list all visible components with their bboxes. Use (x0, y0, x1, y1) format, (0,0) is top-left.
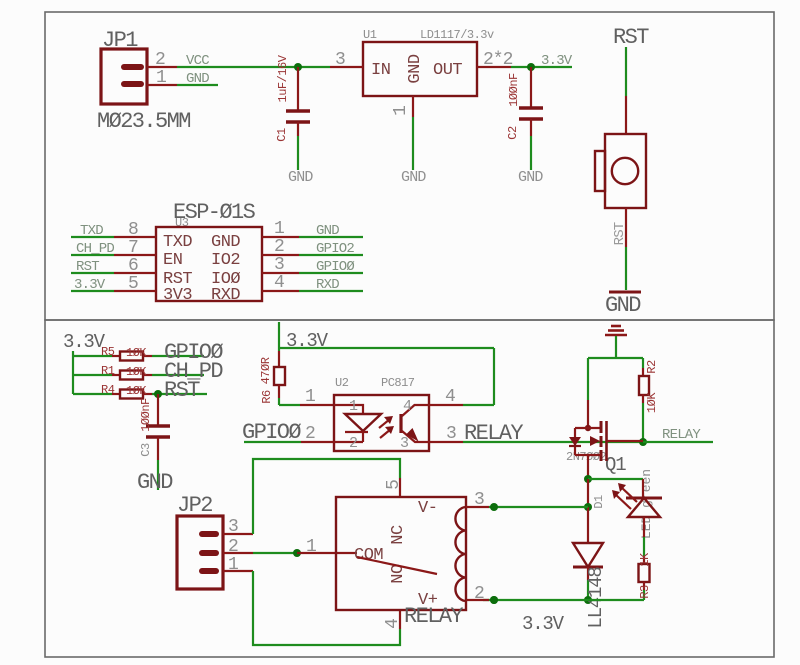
svg-text:LD1117/3.3v: LD1117/3.3v (420, 28, 494, 42)
svg-text:GND: GND (518, 169, 543, 186)
svg-text:GPIOØ: GPIOØ (316, 259, 354, 275)
svg-text:4: 4 (383, 619, 403, 629)
svg-text:6: 6 (128, 256, 138, 276)
svg-text:V-: V- (418, 499, 437, 518)
svg-text:4: 4 (403, 398, 412, 415)
svg-text:5: 5 (384, 480, 404, 490)
svg-text:C1: C1 (275, 128, 289, 142)
svg-text:1ØØnF: 1ØØnF (507, 73, 521, 107)
svg-text:GPIOØ: GPIOØ (242, 420, 301, 445)
svg-text:1: 1 (306, 537, 316, 557)
svg-text:TXD: TXD (163, 233, 192, 252)
svg-text:GND: GND (211, 233, 240, 252)
svg-text:Q1: Q1 (605, 454, 626, 476)
svg-text:D1: D1 (592, 495, 606, 509)
svg-text:5: 5 (128, 274, 138, 294)
svg-text:1: 1 (156, 68, 166, 88)
svg-text:2: 2 (228, 537, 238, 557)
svg-text:4: 4 (445, 387, 455, 407)
svg-text:U1: U1 (363, 28, 377, 42)
svg-text:GND: GND (605, 293, 641, 318)
svg-text:3.3V: 3.3V (74, 277, 106, 293)
svg-text:1: 1 (349, 398, 358, 415)
svg-text:RST: RST (613, 25, 649, 50)
svg-text:R6: R6 (260, 390, 274, 404)
svg-text:1K: 1K (638, 552, 652, 567)
svg-text:1ØK: 1ØK (126, 384, 147, 398)
svg-text:IN: IN (371, 61, 390, 80)
svg-text:C2: C2 (506, 126, 520, 140)
svg-text:JP2: JP2 (177, 493, 212, 518)
svg-text:U2: U2 (335, 376, 349, 390)
svg-text:GND: GND (401, 169, 426, 186)
svg-text:C3: C3 (139, 443, 153, 457)
svg-text:1ØK: 1ØK (126, 365, 147, 379)
svg-text:2: 2 (155, 50, 165, 70)
svg-text:3: 3 (335, 50, 345, 70)
svg-text:MØ23.5MM: MØ23.5MM (97, 109, 190, 134)
svg-text:3: 3 (474, 490, 484, 510)
svg-text:RELAY: RELAY (464, 421, 523, 446)
svg-text:OUT: OUT (433, 61, 462, 80)
svg-text:47ØR: 47ØR (259, 357, 273, 384)
svg-text:GND: GND (316, 223, 339, 239)
svg-text:2*2: 2*2 (483, 50, 513, 70)
svg-text:R3: R3 (638, 585, 652, 599)
svg-text:RELAY: RELAY (662, 427, 701, 443)
svg-text:GPIO2: GPIO2 (316, 241, 354, 257)
svg-text:1: 1 (274, 219, 284, 239)
svg-text:1uF/16V: 1uF/16V (276, 54, 290, 102)
svg-text:8: 8 (128, 220, 138, 240)
svg-text:RST: RST (164, 378, 200, 403)
svg-text:R5: R5 (101, 345, 115, 359)
svg-text:R4: R4 (101, 383, 115, 397)
svg-text:R1: R1 (101, 364, 115, 378)
svg-text:CH_PD: CH_PD (76, 241, 114, 257)
svg-text:3: 3 (274, 255, 284, 275)
svg-text:GND: GND (288, 169, 313, 186)
svg-text:R2: R2 (645, 360, 659, 374)
svg-text:RELAY: RELAY (404, 604, 463, 629)
svg-text:3: 3 (228, 517, 238, 537)
svg-text:IO2: IO2 (211, 251, 240, 270)
svg-text:RST: RST (612, 222, 628, 245)
svg-text:1ØK: 1ØK (645, 392, 659, 413)
svg-text:GND: GND (137, 470, 173, 495)
svg-text:2: 2 (305, 424, 315, 444)
svg-text:3.3V: 3.3V (522, 613, 565, 635)
svg-text:1: 1 (391, 106, 411, 116)
svg-text:2: 2 (474, 584, 484, 604)
svg-text:2: 2 (349, 435, 358, 452)
svg-text:1ØØnF: 1ØØnF (139, 398, 153, 432)
svg-text:4: 4 (274, 273, 284, 293)
svg-text:LED green: LED green (639, 469, 654, 539)
svg-text:EN: EN (163, 251, 182, 270)
svg-text:LL4148: LL4148 (585, 567, 607, 629)
svg-text:TXD: TXD (80, 223, 103, 239)
svg-text:3: 3 (400, 435, 409, 452)
svg-text:1: 1 (228, 555, 238, 575)
svg-text:NC: NC (389, 525, 408, 545)
svg-text:3.3V: 3.3V (63, 331, 106, 353)
svg-text:RXD: RXD (316, 277, 339, 293)
svg-text:3V3: 3V3 (163, 286, 192, 305)
svg-text:PC817: PC817 (381, 376, 415, 390)
svg-text:RXD: RXD (211, 286, 240, 305)
svg-text:3.3V: 3.3V (541, 53, 573, 69)
svg-text:1: 1 (305, 387, 315, 407)
svg-text:RST: RST (76, 259, 99, 275)
svg-text:2: 2 (274, 237, 284, 257)
svg-text:1ØK: 1ØK (126, 346, 147, 360)
svg-text:7: 7 (128, 238, 138, 258)
svg-text:3: 3 (446, 424, 456, 444)
svg-text:GND: GND (406, 54, 425, 83)
